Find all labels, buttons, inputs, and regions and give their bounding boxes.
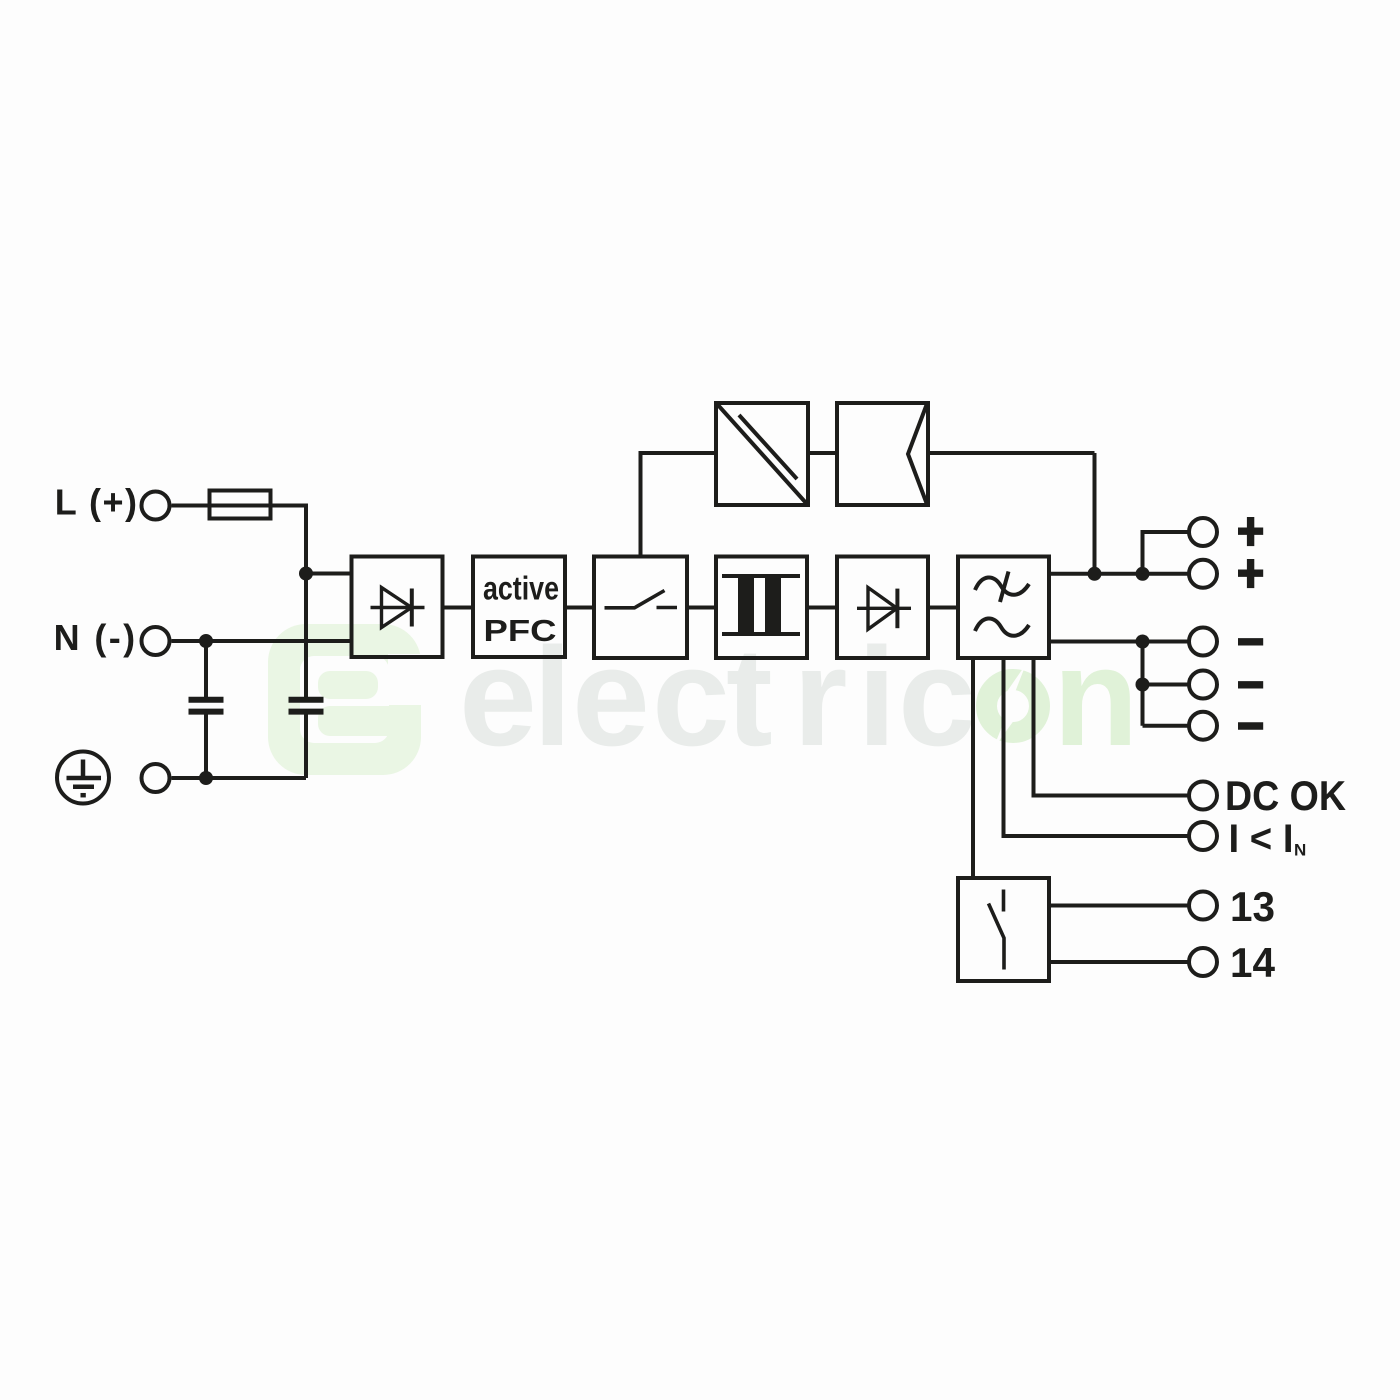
svg-text:N (-): N (-) [54, 617, 138, 658]
wire converter to feedback block [808, 451, 837, 455]
terminal plus 2 [1189, 560, 1217, 588]
filter crossed sine symbol [975, 572, 1029, 603]
relay contact block [958, 878, 1049, 981]
wire switch to transformer [687, 606, 716, 610]
rectifier block [352, 557, 443, 658]
transformer block [716, 557, 807, 659]
fuse F1 [210, 491, 271, 519]
rectifier diode symbol [371, 588, 425, 628]
terminal minus 3 [1189, 712, 1217, 740]
switching stage block [594, 557, 687, 659]
svg-text:L (+): L (+) [55, 482, 139, 523]
wire relay to terminal 13 [1049, 904, 1188, 908]
terminal minus 1 [1189, 628, 1217, 656]
svg-text:DC OK: DC OK [1225, 772, 1346, 819]
feedback block top [837, 403, 928, 505]
wire L junction to rectifier [306, 572, 352, 576]
junction node top branch [1088, 567, 1102, 581]
output filter block [958, 557, 1049, 659]
relay contact symbol [989, 890, 1005, 970]
junction node PE [199, 771, 213, 785]
watermark o with bolt [987, 664, 1040, 749]
terminal I<IN [1189, 822, 1217, 850]
wire filter pin to relay [971, 658, 975, 878]
wire to minus terminal 2 [1143, 683, 1188, 687]
svg-text:c: c [898, 618, 976, 775]
filter sine symbol [975, 618, 1029, 635]
terminal minus 2 [1189, 671, 1217, 699]
wire C1 to PE rail [204, 715, 208, 779]
feedback symbol [908, 405, 927, 503]
wire N terminal to rectifier [172, 639, 352, 643]
junction node L [299, 567, 313, 581]
capacitor C2 [289, 700, 324, 712]
wire filter pin to DC OK terminal [1034, 658, 1188, 796]
svg-text:PFC: PFC [484, 613, 557, 648]
junction node N [199, 634, 213, 648]
watermark text electric [459, 618, 976, 775]
wire L feed vertical [304, 504, 308, 698]
wire rectifier to PFC [443, 606, 474, 610]
svg-text:i: i [857, 618, 896, 775]
terminal L [142, 492, 170, 520]
terminal plus 1 [1189, 518, 1217, 546]
wire L terminal to corner [172, 504, 307, 508]
wire transformer to output diode [807, 606, 837, 610]
label minus 2 [1238, 681, 1263, 688]
svg-text:active: active [483, 570, 559, 607]
wire diode to filter [928, 606, 958, 610]
label I < IN [1229, 817, 1307, 861]
switch contact symbol [605, 591, 678, 608]
svg-text:14: 14 [1230, 939, 1276, 986]
svg-text:c: c [652, 618, 730, 775]
svg-text:t: t [726, 618, 773, 775]
converter block top [716, 403, 808, 505]
wire feedback to output node [928, 453, 1095, 574]
wire PE rail [172, 776, 307, 780]
wire filter pin to I<IN terminal [1004, 658, 1188, 836]
PFC block [473, 557, 565, 658]
output diode block [837, 557, 928, 659]
svg-text:I < I: I < I [1229, 817, 1294, 861]
label minus 3 [1238, 722, 1263, 729]
label plus 1 [1238, 517, 1263, 546]
svg-text:r: r [793, 618, 847, 775]
wire to minus terminal 3 [1143, 724, 1188, 728]
wire N junction to C1 [204, 641, 208, 697]
wire switch top branch to converter [641, 453, 717, 557]
svg-text:13: 13 [1230, 883, 1275, 930]
wire relay to terminal 14 [1049, 960, 1188, 964]
wire minus rail [1141, 642, 1145, 726]
wire plus output [1049, 572, 1188, 576]
label plus 2 [1238, 559, 1263, 588]
wire PFC to switch [565, 606, 594, 610]
converter diagonal symbol [718, 405, 807, 504]
junction node plus split [1136, 567, 1150, 581]
terminal DC OK [1189, 782, 1217, 810]
junction node minus 1 [1136, 635, 1150, 649]
svg-text:e: e [572, 618, 650, 775]
wire C2 to PE rail [304, 715, 308, 779]
ground symbol [57, 752, 109, 804]
output diode symbol [857, 588, 911, 630]
terminal PE [142, 764, 170, 792]
terminal 13 [1189, 892, 1217, 920]
label minus 1 [1238, 638, 1263, 645]
wire minus output [1049, 640, 1188, 644]
terminal 14 [1189, 948, 1217, 976]
svg-text:N: N [1294, 841, 1306, 860]
terminal N [142, 627, 170, 655]
junction node minus 2 [1136, 678, 1150, 692]
watermark logo G [268, 624, 424, 775]
transformer symbol [722, 576, 800, 634]
wire to plus terminal 1 [1143, 532, 1188, 574]
capacitor C1 [189, 700, 224, 712]
